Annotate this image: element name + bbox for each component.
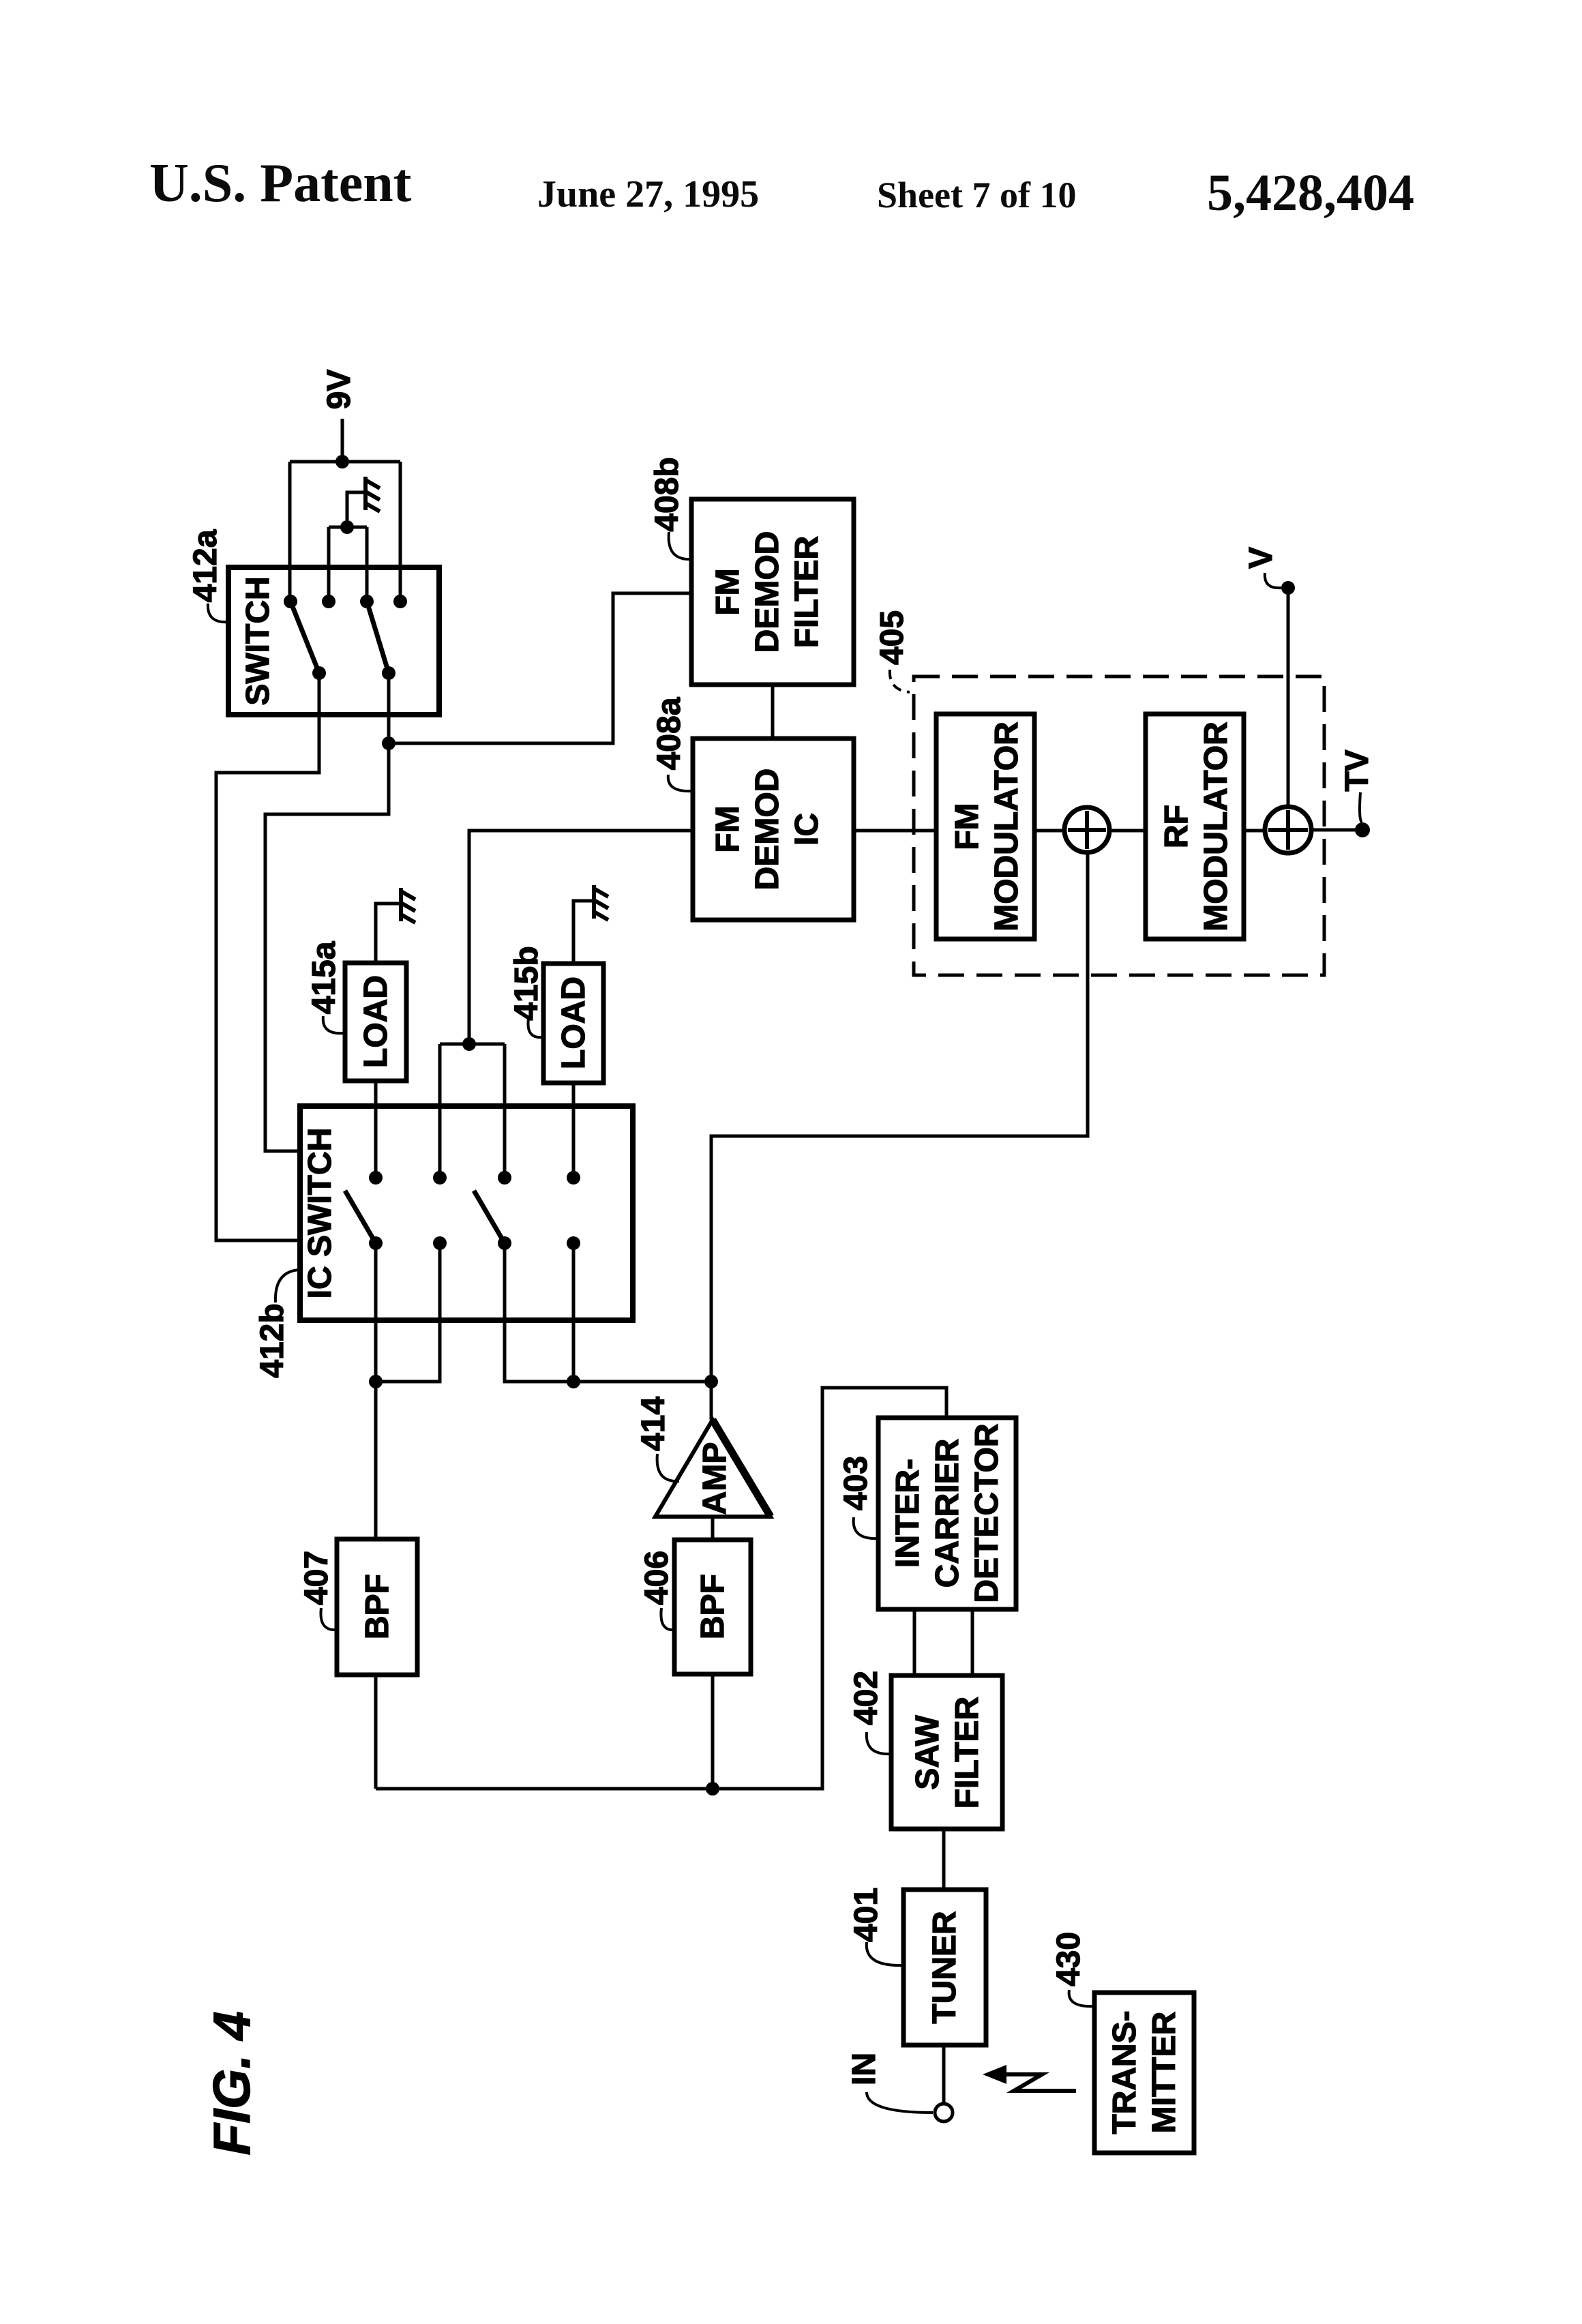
pin dot 3 [360,595,374,608]
leader 412a [208,604,230,622]
leader 408b [669,532,691,559]
svg-text:MODULATOR: MODULATOR [1198,721,1234,932]
ic pin dot bottom3 [498,1236,511,1250]
svg-text:SWITCH: SWITCH [240,576,276,705]
wire A from switch throw1 to IC SWITCH [216,673,319,1240]
wire FDF to FDI [771,685,775,739]
wire V to sum2 [1287,594,1290,807]
switch arm 2 [367,601,389,673]
wire B from switch throw2 down [265,673,389,1151]
leader 408a [668,775,693,791]
ic switch box 412b IC SWITCH [300,1106,633,1320]
svg-text:INTER-: INTER- [890,1459,926,1568]
wire LOAD a bottom to pin [374,1081,378,1178]
wire U left leg [438,1044,442,1178]
ic pin dot top4 [567,1171,580,1185]
svg-text:405: 405 [874,610,910,665]
wire ic pin b1 down to BPF407 [374,1243,378,1539]
text RF MODULATOR [1159,721,1234,932]
wire ic pin b4 down [572,1243,576,1382]
ic pin dot bottom2 [433,1236,447,1250]
wire U right leg [503,1044,507,1178]
svg-text:9V: 9V [321,370,357,410]
switch arm 2 throw dot [382,666,395,680]
node TV dot [1355,822,1370,837]
text FM DEMOD IC [710,769,825,891]
ic pin dot bottom4 [567,1236,580,1250]
block 401 TUNER [904,1890,986,2045]
svg-text:FILTER: FILTER [789,536,825,648]
leader 406 [661,1608,674,1630]
header: U.S. Patent [149,153,411,215]
ic switch arm 1 [345,1191,376,1243]
svg-text:430: 430 [1051,1932,1087,1986]
node V terminal dot [1281,581,1295,595]
wire LOAD b top to ground [573,901,594,964]
wire ICD to SAW right [971,1609,974,1675]
svg-text:FM: FM [949,803,985,850]
ic switch arm 2 [474,1191,505,1243]
wire ground U right leg pin3 [365,527,369,601]
svg-text:LOAD: LOAD [556,977,592,1069]
text FM MODULATOR [949,721,1025,932]
wire sum1 to RF modulator [1109,829,1146,833]
wire FM mod to sum1 [1034,829,1064,833]
ground symbol G2 [401,888,415,923]
ground symbol G3 [594,885,608,920]
leader TV [1360,792,1362,822]
header: date [537,173,759,216]
leader V [1265,573,1281,588]
junction dot bus [706,1782,719,1796]
svg-text:LOAD: LOAD [358,975,394,1068]
junction dot b4 [567,1375,580,1388]
block 430 TRANS-MITTER [1094,1993,1194,2153]
block 406 BPF [674,1540,751,1674]
summer 2 [1265,807,1311,853]
wire bottom bus to intercarrier [376,1388,946,1789]
block RF MODULATOR [1146,714,1244,939]
svg-text:408a: 408a [651,697,687,770]
junction 9V rail dot [335,455,349,468]
pin dot 4 [393,595,407,608]
leader 412b [275,1270,300,1302]
ground symbol G1 [365,477,380,511]
svg-text:412a: 412a [188,529,224,602]
svg-text:IN: IN [846,2053,882,2085]
svg-text:BPF: BPF [695,1574,731,1639]
wire LOAD a top to ground [376,904,401,963]
svg-text:414: 414 [636,1397,672,1451]
summer 1 [1064,807,1109,852]
wire rail right leg to pin4 [399,462,402,601]
svg-text:DEMOD: DEMOD [749,531,786,653]
wire FDI to FM modulator [854,829,936,833]
junction U dot [462,1037,476,1051]
svg-text:AMP: AMP [697,1442,733,1515]
block 415a LOAD [345,963,406,1081]
svg-text:FM: FM [710,805,746,852]
amp 414 triangle [655,1420,771,1517]
wire amp node up to sum1 [711,852,1088,1382]
svg-text:FIG. 4: FIG. 4 [203,2011,261,2155]
wire amp base to BPF406 [711,1517,715,1540]
svg-text:415a: 415a [306,941,342,1014]
leader 401 [867,1942,904,1965]
leader 403 [854,1517,878,1538]
wire ground U top [329,526,367,529]
pin dot 1 [284,595,297,608]
leader 415b [528,1019,543,1037]
svg-text:TRANS-: TRANS- [1107,2010,1143,2134]
block 402 SAW FILTER [891,1675,1002,1829]
leader 405 dashed [890,670,910,692]
svg-text:408b: 408b [649,457,685,531]
wire U bar [440,1043,505,1046]
svg-text:DEMOD: DEMOD [749,769,786,891]
block 403 INTER-CARRIER DETECTOR [878,1418,1016,1609]
node IN terminal circle [935,2104,953,2121]
svg-text:407: 407 [299,1551,335,1605]
svg-text:SAW: SAW [910,1715,946,1790]
text SAW FILTER [910,1697,985,1808]
junction dot b1 [369,1375,383,1388]
leader IN [867,2092,933,2113]
wire TUNER to IN [942,2045,946,2104]
wire amp node down to amp apex [710,1382,713,1420]
svg-text:402: 402 [848,1671,884,1725]
junction dot amp node [704,1375,718,1388]
svg-text:IC SWITCH: IC SWITCH [302,1128,338,1299]
switch arm 1 throw dot [312,666,326,680]
pin dot 2 [322,595,335,608]
switch box 412a SWITCH [228,567,439,715]
header: patent number [1207,164,1414,223]
ic pin dot bottom1 [369,1236,383,1250]
svg-text:406: 406 [639,1551,675,1605]
dashed box 405 [914,676,1324,975]
text FM DEMOD FILTER [710,531,825,653]
block 408b FM DEMOD FILTER [691,499,854,685]
block 407 BPF [337,1539,417,1675]
svg-text:CARRIER: CARRIER [929,1439,966,1588]
svg-text:TV: TV [1339,749,1375,791]
wire RF mod to sum2 [1244,829,1265,833]
junction ground U dot [340,520,354,534]
wire ground U left leg pin2 [327,527,331,601]
svg-text:401: 401 [848,1888,884,1942]
svg-text:IC: IC [789,813,825,846]
ic pin dot top3 [498,1171,511,1185]
leader 402 [867,1732,891,1754]
leader 414 [657,1454,679,1481]
switch arm 1 [290,601,319,673]
leader 430 [1069,1990,1094,2006]
header: sheet [877,174,1076,216]
wire ICD to SAW left [913,1609,916,1675]
svg-text:412b: 412b [254,1303,290,1377]
svg-text:RF: RF [1159,805,1195,848]
svg-text:FILTER: FILTER [949,1697,985,1808]
wire rail left leg to pin1 [288,462,292,601]
junction wire B dot [382,736,395,750]
ic pin dot top2 [433,1171,447,1185]
svg-text:415b: 415b [509,946,545,1020]
amp thick edge [713,1420,771,1517]
svg-text:BPF: BPF [359,1574,395,1639]
wire BPF406 bottom [711,1674,715,1789]
svg-text:TUNER: TUNER [927,1911,963,2023]
svg-text:MITTER: MITTER [1146,2012,1182,2134]
wire BPF407 bottom [374,1675,378,1789]
svg-text:403: 403 [838,1456,874,1510]
wire 9V rail [290,460,400,464]
svg-text:FM: FM [710,568,746,615]
wire ic pin b2 down [376,1243,440,1382]
wire B branch to FM demod filter [389,593,691,743]
wire ground riser [347,492,365,527]
wire LOAD b bottom to pin [572,1083,576,1178]
wire sum2 to TV [1311,829,1361,832]
wire 9V stub [341,419,344,462]
block FM MODULATOR [936,714,1034,939]
svg-text:MODULATOR: MODULATOR [989,721,1025,932]
leader 407 [320,1608,337,1630]
wire FDI left input from IC switch U [469,831,693,1044]
ic pin dot top1 [369,1171,383,1185]
text INTER-CARRIER DETECTOR [890,1423,1005,1603]
svg-text:DETECTOR: DETECTOR [969,1423,1005,1603]
antenna arrow [1005,2074,1076,2091]
block 408a FM DEMOD IC [693,739,854,920]
svg-text:V: V [1243,547,1279,569]
text TRANS-MITTER [1107,2010,1182,2134]
wire SAW to TUNER [942,1829,946,1890]
wire ic pin b3 down [505,1243,711,1382]
block 415b LOAD [543,964,603,1083]
leader 415a [323,1016,345,1033]
